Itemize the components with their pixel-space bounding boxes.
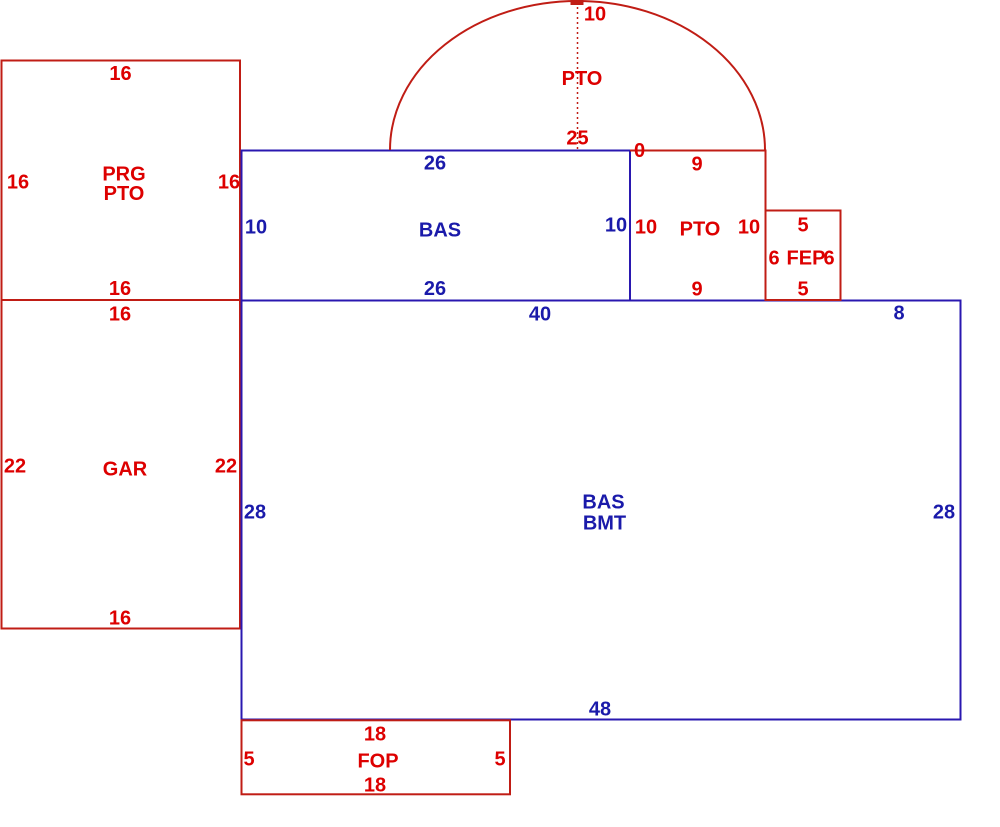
- svg-text:10: 10: [635, 217, 657, 239]
- svg-text:48: 48: [589, 699, 611, 721]
- area PRG PTO outline: [2, 61, 241, 301]
- svg-text:6: 6: [768, 248, 779, 270]
- svg-text:16: 16: [109, 608, 131, 630]
- area GAR outline: [2, 300, 241, 629]
- svg-text:BMT: BMT: [583, 513, 626, 535]
- svg-text:6: 6: [823, 248, 834, 270]
- svg-text:9: 9: [691, 154, 702, 176]
- area FOP outline: [242, 720, 511, 794]
- svg-text:FEP: FEP: [787, 248, 826, 270]
- svg-text:28: 28: [244, 502, 266, 524]
- svg-text:9: 9: [691, 279, 702, 301]
- svg-text:26: 26: [424, 278, 446, 300]
- svg-text:40: 40: [529, 304, 551, 326]
- svg-text:16: 16: [109, 63, 131, 85]
- arc top marker: [571, 0, 584, 5]
- svg-text:8: 8: [893, 303, 904, 325]
- dotted radius line: [577, 2, 579, 149]
- svg-text:18: 18: [364, 775, 386, 797]
- svg-text:PTO: PTO: [562, 68, 603, 90]
- svg-text:16: 16: [109, 278, 131, 300]
- svg-text:10: 10: [245, 217, 267, 239]
- svg-text:5: 5: [797, 279, 808, 301]
- svg-text:GAR: GAR: [103, 459, 148, 481]
- svg-text:10: 10: [605, 215, 627, 237]
- svg-text:16: 16: [7, 172, 29, 194]
- svg-text:5: 5: [494, 749, 505, 771]
- svg-text:25: 25: [566, 128, 588, 150]
- svg-text:BAS: BAS: [582, 492, 624, 514]
- area PTO outline (top + right edges): [630, 151, 766, 301]
- svg-text:PTO: PTO: [104, 183, 145, 205]
- svg-text:18: 18: [364, 724, 386, 746]
- svg-text:22: 22: [215, 456, 237, 478]
- arc PTO half-ellipse: [390, 1, 765, 150]
- svg-text:16: 16: [218, 172, 240, 194]
- svg-text:FOP: FOP: [357, 751, 398, 773]
- area BAS outline: [242, 151, 631, 301]
- svg-text:22: 22: [4, 456, 26, 478]
- svg-text:BAS: BAS: [419, 220, 461, 242]
- svg-text:10: 10: [738, 217, 760, 239]
- svg-text:10: 10: [584, 4, 606, 26]
- svg-text:28: 28: [933, 502, 955, 524]
- area FEP outline: [766, 211, 841, 301]
- svg-text:5: 5: [243, 749, 254, 771]
- svg-text:5: 5: [797, 215, 808, 237]
- svg-text:PTO: PTO: [680, 219, 721, 241]
- area BAS BMT outline: [242, 301, 961, 720]
- svg-text:26: 26: [424, 153, 446, 175]
- svg-text:0: 0: [634, 140, 645, 162]
- svg-text:16: 16: [109, 304, 131, 326]
